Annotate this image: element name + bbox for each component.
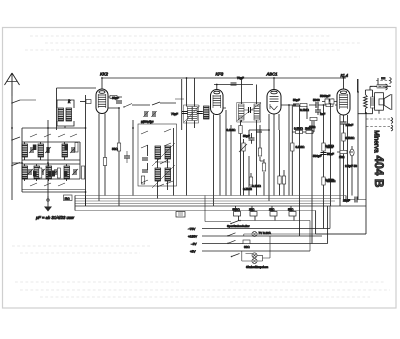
bus line B5 (75, 205, 366, 207)
resistor R13 (342, 133, 355, 201)
wire heater row join (239, 221, 311, 252)
switch S6 (164, 129, 171, 146)
arrow osc tuning (152, 143, 175, 188)
capacitor C20 grid KL4 (320, 94, 337, 104)
svg-text:pF: pF (150, 120, 154, 124)
resistor R30 (103, 158, 106, 166)
resistor R8 0.1M (300, 103, 310, 112)
switch S5 (141, 131, 148, 148)
svg-text:25μF: 25μF (343, 199, 350, 203)
plug tips J1 (381, 77, 391, 90)
wire avc (292, 105, 323, 201)
wire KK2 anode to osc (108, 108, 119, 206)
wire left vertical x56.5 (56, 88, 58, 130)
svg-text:500μF: 500μF (313, 154, 322, 158)
capacitor C23 25uF (343, 197, 366, 203)
tube ABC1 (267, 90, 281, 115)
svg-text:KK2: KK2 (100, 72, 109, 77)
svg-text:0.5MΩ: 0.5MΩ (296, 145, 306, 149)
coil L6 (22, 166, 28, 179)
coil L1 wavetrap (58, 108, 64, 121)
resistor R26 (75, 143, 78, 153)
filler parts left block row1 (33, 145, 68, 151)
potentiometer P1 (239, 139, 247, 196)
oscillator box (138, 124, 177, 186)
svg-text:50pF: 50pF (112, 96, 119, 100)
svg-text:1MΩ: 1MΩ (309, 125, 316, 129)
svg-text:Sperrkreisschalter: Sperrkreisschalter (227, 224, 250, 228)
svg-text:404 B: 404 B (372, 156, 386, 188)
wire det area (249, 125, 269, 196)
switch S3 row (30, 183, 65, 186)
coil L8 (46, 166, 52, 179)
wire row V2 (202, 235, 322, 237)
resistor R22 (322, 177, 336, 185)
resistor R29 (82, 166, 85, 179)
resistor R10 (294, 127, 304, 134)
svg-text:~75V: ~75V (188, 227, 196, 231)
svg-text:2.5μF 50: 2.5μF 50 (345, 164, 357, 168)
filler parts left block row2 (33, 171, 67, 177)
wire KL4 top (343, 78, 345, 89)
svg-text:50Ω: 50Ω (112, 147, 118, 151)
switch S1b (11, 137, 20, 141)
svg-text:5000pF: 5000pF (320, 94, 330, 98)
wire row2 top (22, 164, 80, 166)
svg-text:7V 0.32A: 7V 0.32A (259, 231, 271, 235)
trimmer C7 (72, 169, 78, 175)
capacitor C17 50pF (293, 98, 300, 106)
wire x231 (230, 125, 232, 196)
svg-text:0.5MΩ: 0.5MΩ (346, 136, 356, 140)
wire row V3 (202, 243, 328, 245)
resistor R9 (325, 98, 334, 107)
coil L11 osc (165, 146, 171, 159)
svg-text:1kΩ: 1kΩ (339, 155, 345, 159)
capacitor C12 (142, 170, 148, 172)
IF transformer T1 (184, 105, 201, 123)
wire right columns (316, 79, 366, 234)
antenna A1 (5, 73, 20, 96)
svg-text:0.5MΩ: 0.5MΩ (327, 179, 337, 183)
capacitor C26 (124, 151, 130, 163)
wire row1 top (22, 142, 80, 144)
svg-text:50: 50 (141, 120, 145, 124)
trimmer C4 (27, 169, 33, 175)
tube KK2 (96, 89, 108, 114)
svg-text:1.5nF: 1.5nF (346, 123, 354, 127)
svg-text:KL4: KL4 (341, 73, 349, 78)
plug tips J2 (391, 118, 393, 132)
capacitor C14 (231, 76, 245, 85)
resistor R19 heater (288, 206, 296, 221)
wire left vertical x85.5 (85, 95, 87, 206)
wire row V4 (202, 250, 310, 252)
resistor R21 (322, 143, 334, 151)
switch S1c (11, 163, 20, 167)
trimmer C5 (39, 169, 45, 175)
lamp LA1 (252, 231, 271, 237)
bus line B2 (75, 198, 341, 200)
wire osc mid (155, 160, 170, 164)
coil L5 (62, 144, 68, 157)
wire lamp1 (244, 234, 366, 236)
wire KF3 top (214, 85, 253, 90)
switch S7 (141, 180, 173, 187)
trimmer C3 (70, 147, 76, 153)
lamp LA2 (252, 253, 257, 258)
capacitor C16 (256, 130, 262, 132)
wire block right x80 (79, 142, 81, 164)
trimmer C1 (29, 147, 35, 153)
choke L15 (377, 85, 387, 89)
capacitor C21 (341, 122, 354, 133)
wire row V1 (202, 206, 330, 229)
svg-text:+180V: +180V (188, 235, 198, 239)
capacitor C15 (244, 107, 254, 113)
capacitor C18 (313, 98, 320, 108)
wire KK2 legs (99, 114, 105, 202)
wire x281 x289 (281, 105, 289, 196)
capacitor C9 padding (141, 111, 149, 124)
resistor R5 (258, 144, 261, 161)
resistor R11 (305, 127, 313, 134)
resistor R14 (337, 150, 353, 159)
bus line B4 (75, 203, 330, 205)
trimmer C2 (45, 147, 51, 153)
capacitor C24 (313, 153, 327, 159)
svg-text:1nF: 1nF (320, 112, 325, 116)
wire block bottom line2 (22, 189, 86, 191)
coil L10 osc (155, 146, 161, 159)
wire KL4 legs (331, 104, 348, 206)
wire right drops (300, 199, 328, 244)
bus line B6 (75, 210, 316, 212)
resistor R16 heater (233, 206, 241, 221)
coil L2 wavetrap (66, 108, 72, 121)
tube KF3 (211, 90, 224, 115)
capacitor C25 50pF (243, 133, 255, 144)
wire ABC1 legs (269, 114, 279, 201)
wire lamps2 (242, 236, 270, 261)
wire left vertical x22 (21, 128, 23, 192)
resistor R20 (243, 240, 250, 249)
output transformer T3 primary (364, 95, 368, 109)
svg-text:500Ω: 500Ω (233, 208, 241, 212)
svg-text:ABC1: ABC1 (266, 72, 278, 77)
coil L14 (204, 106, 210, 119)
wire KF3 legs (214, 108, 227, 206)
wire antenna stem (11, 96, 13, 200)
capacitor C11 (142, 158, 148, 160)
svg-text:50μF: 50μF (327, 152, 334, 156)
wire mid line (132, 102, 176, 105)
coil L4 (38, 144, 44, 157)
svg-text:1kΩ: 1kΩ (65, 196, 70, 200)
lamp LA3 (252, 259, 257, 264)
wire top bus (102, 77, 346, 79)
resistor R1 right of KK2 (108, 95, 122, 98)
wire power risers (205, 196, 231, 222)
wire row1 bottom (22, 157, 80, 160)
wire speaker bottom (358, 108, 380, 114)
capacitor C13 (182, 112, 203, 114)
svg-text:50pF: 50pF (293, 98, 300, 102)
wire IF2 verticals (242, 78, 257, 196)
resistor R4 (227, 121, 243, 196)
plug jack J1 dashed (370, 81, 389, 87)
bus line B3 (75, 200, 335, 202)
wire wavetrap frame (57, 100, 74, 128)
resistor R12 (309, 117, 317, 129)
svg-text:KF3: KF3 (216, 72, 224, 77)
wire KK2 top to bus (101, 78, 103, 89)
svg-text:Skalenlämpchen: Skalenlämpchen (246, 265, 269, 269)
capacitor grid cap KK2 (80, 100, 91, 104)
switch S4 (123, 104, 132, 108)
wire sig line y105 (289, 104, 337, 106)
resistor R31 in bus band (64, 195, 73, 201)
wire left vertical x48 to ground (47, 120, 49, 200)
svg-text:0.1MΩ: 0.1MΩ (300, 108, 310, 112)
svg-text:1MΩ: 1MΩ (327, 145, 334, 149)
wire ABC1 top (273, 78, 275, 90)
trimmer C6 (53, 169, 59, 175)
ghost bleed rows (12, 36, 390, 297)
svg-text:μF = ab 31/4/23 usw: μF = ab 31/4/23 usw (35, 215, 75, 220)
resistor R7 (243, 173, 253, 191)
svg-text:70pF: 70pF (237, 76, 244, 80)
wire horizontals left block (12, 88, 96, 192)
wire bus left ends (75, 196, 86, 211)
plug jack J2 dashed (366, 119, 391, 127)
wire IF1 verticals (182, 78, 195, 196)
resistor R27 (39, 168, 42, 178)
switch S9 (227, 233, 235, 244)
bus line B1 (75, 195, 346, 197)
svg-text:5000: 5000 (313, 98, 320, 102)
capacitor C19 1nF (315, 105, 325, 116)
IF transformer T2 (237, 103, 261, 123)
resistor R3 (141, 176, 144, 184)
resistor R28 (57, 168, 60, 178)
svg-text:Minerva: Minerva (373, 130, 381, 153)
svg-text:30Ω: 30Ω (244, 245, 250, 249)
resistor R24 (282, 170, 285, 196)
capacitor C8 50pF (112, 96, 122, 103)
wire x133 (132, 120, 134, 196)
switch S1a on antenna line (11, 100, 36, 104)
coil L13 osc (165, 168, 171, 181)
electrolytic C22 (350, 146, 354, 196)
speaker LS1 (375, 93, 392, 111)
wire speaker top (358, 78, 392, 97)
switch S8 mains (230, 220, 241, 225)
resistor R23 (278, 130, 281, 196)
switch S2 row (30, 134, 77, 137)
resistor R2 50ohm (112, 143, 121, 151)
svg-text:70pF: 70pF (171, 112, 178, 116)
resistor R15 in bus (176, 212, 185, 218)
resistor R25 (291, 132, 306, 196)
coil L7 (34, 166, 40, 179)
coil L9 (64, 166, 70, 179)
coil L12 osc (155, 168, 161, 181)
capacitor C10 padding (150, 111, 157, 124)
svg-text:0.2MΩ: 0.2MΩ (252, 184, 262, 188)
resistor R17 heater (249, 206, 257, 221)
resistor R18 heater (269, 206, 277, 221)
svg-text:0.5MΩ: 0.5MΩ (294, 127, 304, 131)
coil L3 (22, 144, 28, 157)
svg-text:+2V: +2V (190, 250, 197, 254)
wire osc verticals (148, 128, 174, 199)
wire row2 bottom (22, 164, 80, 181)
svg-text:–2V: –2V (191, 242, 197, 246)
output transformer T3 secondary (371, 97, 375, 108)
tube KL4 (337, 89, 350, 115)
wire KF3 zone (175, 98, 184, 100)
switch S10 (231, 254, 240, 258)
ground GND1 (44, 196, 52, 212)
resistor R6 (262, 159, 265, 176)
